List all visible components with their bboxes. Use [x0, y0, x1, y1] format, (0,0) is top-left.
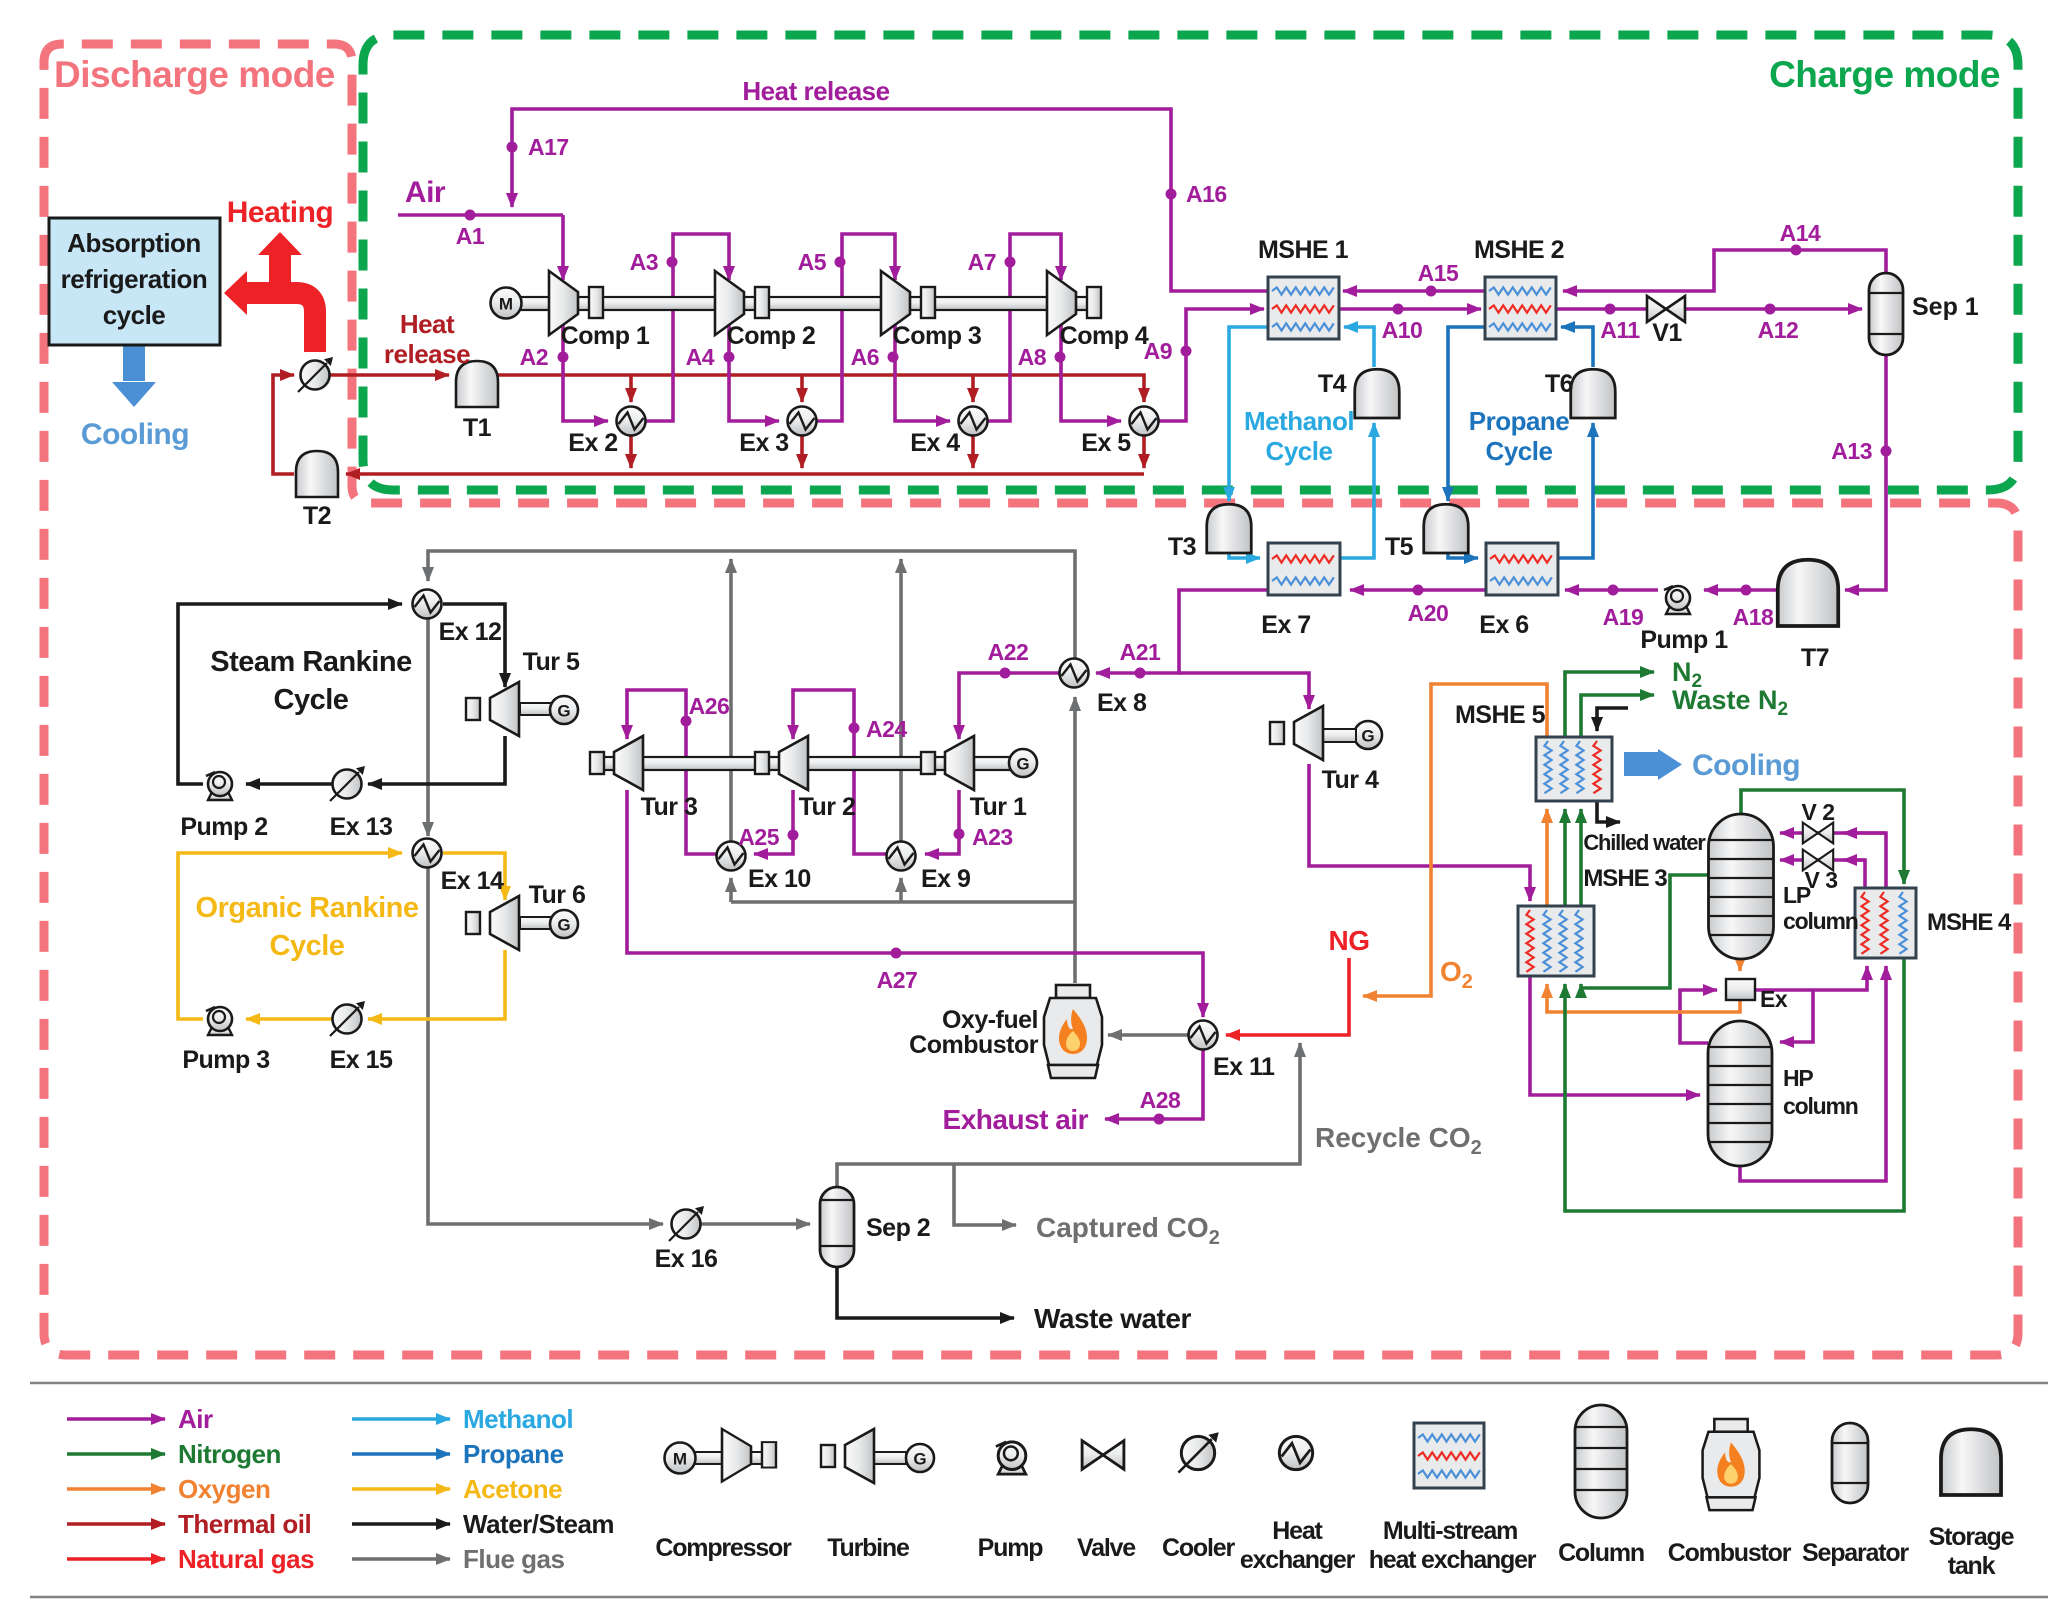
svg-text:A4: A4 [686, 344, 715, 370]
svg-text:Ex 9: Ex 9 [921, 865, 970, 893]
svg-text:Waste water: Waste water [1034, 1303, 1191, 1334]
svg-text:Propane: Propane [1469, 406, 1570, 436]
svg-text:A5: A5 [798, 249, 827, 275]
svg-text:Exhaust air: Exhaust air [943, 1104, 1089, 1135]
svg-text:T4: T4 [1318, 370, 1347, 398]
svg-text:Ex 15: Ex 15 [330, 1046, 393, 1074]
svg-text:Ex 2: Ex 2 [568, 429, 617, 457]
svg-text:A24: A24 [866, 716, 907, 742]
svg-text:Air: Air [405, 176, 446, 209]
svg-text:Tur 3: Tur 3 [641, 793, 698, 821]
svg-text:MSHE 4: MSHE 4 [1927, 909, 2012, 936]
svg-text:Combustor: Combustor [909, 1031, 1039, 1059]
svg-text:T1: T1 [463, 414, 492, 442]
svg-text:heat exchanger: heat exchanger [1369, 1546, 1537, 1574]
svg-text:A8: A8 [1018, 344, 1047, 370]
svg-text:Cycle: Cycle [1266, 436, 1333, 466]
svg-text:MSHE 3: MSHE 3 [1583, 865, 1667, 892]
svg-text:cycle: cycle [103, 300, 166, 330]
svg-text:T6: T6 [1545, 370, 1573, 398]
svg-text:NG: NG [1329, 925, 1370, 956]
svg-text:Ex 14: Ex 14 [441, 867, 504, 895]
svg-text:T3: T3 [1168, 533, 1196, 561]
svg-text:A23: A23 [972, 824, 1013, 850]
svg-text:Tur 2: Tur 2 [799, 793, 856, 821]
svg-text:Ex 12: Ex 12 [439, 618, 502, 646]
svg-text:A22: A22 [988, 639, 1029, 665]
svg-text:T7: T7 [1801, 644, 1829, 672]
svg-text:Pump 3: Pump 3 [182, 1046, 269, 1074]
svg-text:A15: A15 [1418, 260, 1459, 286]
svg-text:Discharge mode: Discharge mode [54, 54, 335, 95]
svg-text:column: column [1783, 1093, 1858, 1119]
svg-text:Heat: Heat [400, 309, 455, 339]
svg-text:Methanol: Methanol [463, 1404, 573, 1434]
svg-text:A11: A11 [1600, 317, 1640, 343]
svg-text:Heat release: Heat release [742, 76, 889, 106]
svg-text:A2: A2 [520, 344, 548, 370]
svg-text:A12: A12 [1758, 317, 1799, 343]
svg-text:Comp 1: Comp 1 [561, 322, 650, 350]
svg-text:Sep 1: Sep 1 [1912, 293, 1979, 321]
svg-text:Sep 2: Sep 2 [866, 1214, 930, 1242]
svg-text:A3: A3 [630, 249, 658, 275]
svg-text:Oxygen: Oxygen [178, 1474, 270, 1504]
svg-text:Pump 2: Pump 2 [180, 813, 267, 841]
svg-text:T5: T5 [1385, 533, 1414, 561]
svg-text:Nitrogen: Nitrogen [178, 1439, 281, 1469]
svg-text:Ex 16: Ex 16 [655, 1245, 718, 1273]
svg-text:MSHE 2: MSHE 2 [1474, 236, 1564, 264]
svg-text:T2: T2 [303, 502, 331, 530]
svg-text:Ex 10: Ex 10 [748, 865, 811, 893]
svg-text:Ex 8: Ex 8 [1097, 689, 1147, 717]
svg-text:Turbine: Turbine [827, 1534, 910, 1562]
svg-text:A10: A10 [1382, 317, 1423, 343]
svg-text:Cycle: Cycle [274, 684, 349, 716]
svg-text:Separator: Separator [1802, 1539, 1909, 1567]
svg-text:A14: A14 [1780, 220, 1821, 246]
svg-text:HP: HP [1783, 1065, 1813, 1091]
svg-text:A7: A7 [968, 249, 996, 275]
svg-text:Water/Steam: Water/Steam [463, 1509, 614, 1539]
svg-text:A9: A9 [1144, 338, 1172, 364]
svg-text:A28: A28 [1140, 1087, 1181, 1113]
svg-text:Oxy-fuel: Oxy-fuel [942, 1006, 1038, 1034]
svg-text:Cooling: Cooling [1692, 749, 1800, 782]
svg-text:A1: A1 [456, 223, 485, 249]
svg-text:MSHE 1: MSHE 1 [1258, 236, 1349, 264]
svg-text:Organic Rankine: Organic Rankine [196, 892, 419, 924]
svg-text:Pump 1: Pump 1 [1640, 626, 1728, 654]
svg-text:Cooler: Cooler [1162, 1534, 1235, 1562]
svg-text:A6: A6 [851, 344, 879, 370]
svg-text:V 3: V 3 [1804, 867, 1837, 893]
svg-text:Absorption: Absorption [67, 228, 201, 258]
svg-text:column: column [1783, 908, 1858, 934]
svg-text:V1: V1 [1652, 319, 1682, 347]
svg-text:exchanger: exchanger [1240, 1546, 1356, 1574]
svg-text:refrigeration: refrigeration [61, 264, 208, 294]
svg-text:Ex 7: Ex 7 [1261, 611, 1310, 639]
svg-text:Steam Rankine: Steam Rankine [210, 646, 412, 678]
svg-text:Cooling: Cooling [81, 418, 189, 451]
svg-text:Air: Air [178, 1404, 213, 1434]
svg-text:A17: A17 [528, 134, 569, 160]
svg-text:Pump: Pump [978, 1534, 1044, 1562]
svg-text:Cycle: Cycle [1486, 436, 1553, 466]
svg-text:Ex 5: Ex 5 [1081, 429, 1131, 457]
svg-text:A18: A18 [1733, 604, 1774, 630]
svg-text:MSHE 5: MSHE 5 [1455, 701, 1546, 729]
svg-text:Ex 11: Ex 11 [1213, 1053, 1275, 1081]
svg-text:Ex: Ex [1760, 986, 1788, 1012]
svg-text:Comp 4: Comp 4 [1060, 322, 1149, 350]
svg-text:Combustor: Combustor [1668, 1539, 1792, 1567]
svg-text:Tur 4: Tur 4 [1322, 766, 1379, 794]
svg-text:Tur 1: Tur 1 [970, 793, 1027, 821]
svg-text:Ex 6: Ex 6 [1479, 611, 1528, 639]
svg-text:Comp 2: Comp 2 [727, 322, 816, 350]
svg-text:A20: A20 [1408, 600, 1449, 626]
svg-text:A19: A19 [1603, 604, 1644, 630]
svg-text:A13: A13 [1831, 438, 1872, 464]
svg-text:Ex 3: Ex 3 [739, 429, 788, 457]
svg-text:tank: tank [1948, 1552, 1996, 1580]
svg-text:release: release [384, 339, 470, 369]
svg-text:Valve: Valve [1077, 1534, 1136, 1562]
svg-text:Natural gas: Natural gas [178, 1544, 314, 1574]
svg-text:Propane: Propane [463, 1439, 564, 1469]
svg-text:Multi-stream: Multi-stream [1383, 1517, 1517, 1545]
svg-text:A16: A16 [1186, 181, 1227, 207]
svg-text:A25: A25 [738, 824, 779, 850]
svg-text:Comp 3: Comp 3 [893, 322, 982, 350]
svg-text:V 2: V 2 [1801, 799, 1834, 825]
svg-text:A21: A21 [1120, 639, 1161, 665]
svg-text:A27: A27 [877, 967, 918, 993]
svg-text:Charge mode: Charge mode [1769, 54, 2000, 95]
svg-text:Cycle: Cycle [270, 930, 345, 962]
svg-text:Tur 5: Tur 5 [523, 648, 580, 676]
svg-text:Compressor: Compressor [655, 1534, 792, 1562]
svg-text:Chilled water: Chilled water [1583, 830, 1706, 855]
svg-text:Heat: Heat [1272, 1517, 1323, 1545]
svg-text:Waste N2: Waste N2 [1672, 685, 1788, 720]
svg-text:Thermal oil: Thermal oil [178, 1509, 311, 1539]
svg-text:A26: A26 [689, 693, 730, 719]
svg-text:Flue gas: Flue gas [463, 1544, 565, 1574]
svg-text:Ex 13: Ex 13 [330, 813, 393, 841]
svg-text:Column: Column [1558, 1539, 1644, 1567]
svg-text:Storage: Storage [1929, 1523, 2015, 1551]
svg-text:Tur 6: Tur 6 [529, 881, 586, 909]
svg-text:Methanol: Methanol [1244, 406, 1354, 436]
svg-text:Acetone: Acetone [463, 1474, 562, 1504]
svg-text:Ex 4: Ex 4 [910, 429, 960, 457]
svg-text:Heating: Heating [227, 196, 334, 229]
